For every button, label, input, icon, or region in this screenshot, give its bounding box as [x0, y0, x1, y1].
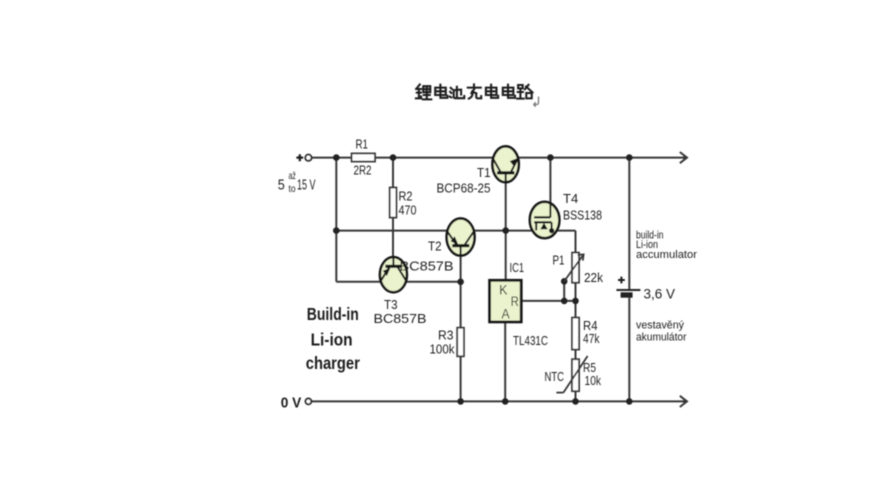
svg-text:A: A: [502, 307, 510, 322]
svg-text:2R2: 2R2: [354, 163, 372, 178]
svg-text:BC857B: BC857B: [374, 311, 427, 326]
svg-text:R3: R3: [438, 328, 454, 343]
svg-text:R2: R2: [399, 189, 413, 204]
svg-text:P1: P1: [553, 252, 565, 267]
svg-text:Build-in: Build-in: [307, 304, 359, 324]
svg-text:100k: 100k: [430, 342, 455, 357]
svg-text:až: až: [289, 170, 296, 182]
svg-text:22k: 22k: [584, 270, 603, 285]
svg-text:TL431C: TL431C: [513, 333, 548, 348]
svg-text:K: K: [499, 283, 507, 298]
svg-text:0 V: 0 V: [281, 396, 302, 412]
svg-text:akumulátor: akumulátor: [636, 331, 687, 343]
svg-text:IC1: IC1: [510, 260, 525, 275]
svg-text:R1: R1: [356, 136, 369, 151]
svg-text:NTC: NTC: [545, 369, 565, 384]
svg-text:accumulator: accumulator: [636, 249, 697, 261]
svg-text:to: to: [289, 183, 296, 195]
svg-text:T4: T4: [563, 191, 578, 206]
svg-text:470: 470: [399, 203, 417, 218]
svg-text:T1: T1: [477, 165, 491, 180]
svg-text:10k: 10k: [585, 373, 602, 388]
svg-text:3,6 V: 3,6 V: [644, 287, 676, 302]
svg-text:BC857B: BC857B: [400, 258, 454, 273]
svg-text:BSS138: BSS138: [563, 207, 602, 222]
svg-text:T3: T3: [384, 297, 398, 312]
svg-text:vestavěný: vestavěný: [636, 319, 684, 331]
svg-text:Li-ion: Li-ion: [311, 329, 353, 349]
svg-text:T2: T2: [428, 239, 442, 254]
svg-text:R: R: [511, 294, 519, 309]
svg-text:15 V: 15 V: [297, 178, 316, 194]
svg-text:BCP68-25: BCP68-25: [437, 180, 491, 195]
svg-text:5: 5: [278, 178, 285, 194]
svg-text:47k: 47k: [583, 331, 600, 346]
svg-text:charger: charger: [306, 353, 360, 373]
